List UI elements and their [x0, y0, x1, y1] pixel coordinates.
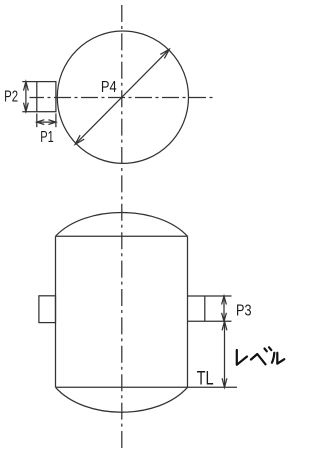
dimension P3 (right nozzle height) [222, 296, 227, 321]
dimension P1 (nozzle width) [37, 114, 56, 128]
circle (vessel top view shell) [57, 31, 188, 163]
svg-text:P2: P2 [4, 89, 18, 106]
vessel bottom head [56, 387, 188, 412]
label P1 [40, 129, 54, 146]
dimension P2 (nozzle height) [22, 82, 37, 112]
tangent line TL (bottom seam extended) [56, 386, 238, 388]
svg-text:TL: TL [197, 368, 214, 389]
left nozzle N2 [39, 296, 56, 323]
vessel shell (side view walls) [56, 236, 188, 387]
svg-text:P3: P3 [236, 303, 252, 320]
svg-text:P4: P4 [101, 79, 117, 96]
nozzle N1 (top-view nozzle rectangle) [37, 82, 56, 112]
dimension P4 (diameter arrow) [75, 49, 169, 144]
svg-text:P1: P1 [40, 129, 54, 146]
label TL [197, 368, 214, 389]
vertical centerline [121, 5, 123, 448]
label P4 [101, 79, 117, 96]
right nozzle N3 [188, 296, 232, 321]
label レベル (level) [237, 347, 284, 365]
label P2 [4, 89, 18, 106]
dimension level (nozzle to TL) [222, 321, 227, 387]
vessel top head [56, 213, 188, 237]
label P3 [236, 303, 252, 320]
horizontal centerline [30, 97, 216, 99]
